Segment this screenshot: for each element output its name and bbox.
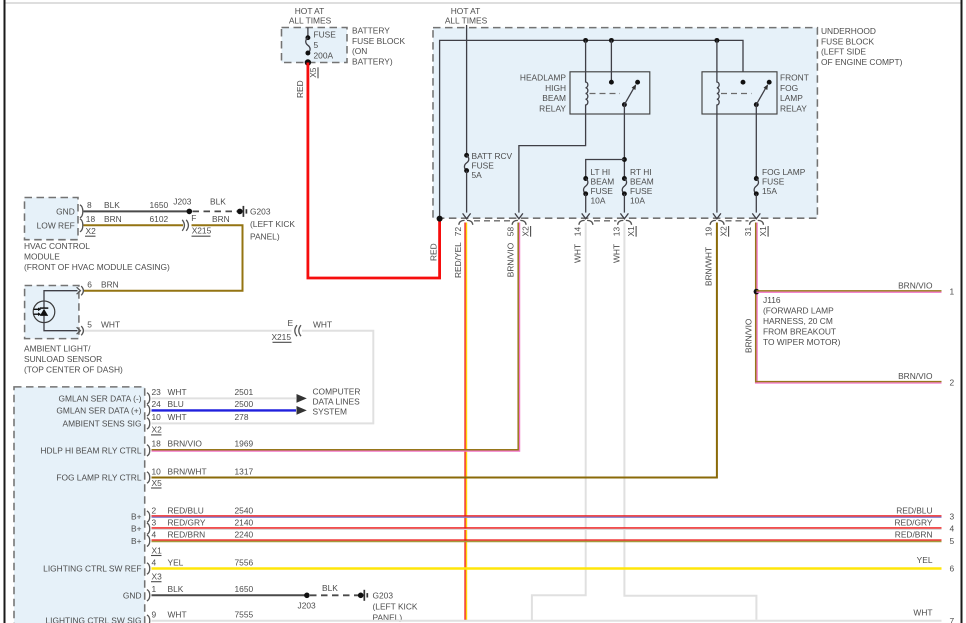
svg-text:WHT: WHT <box>101 320 120 330</box>
svg-text:6102: 6102 <box>150 214 169 224</box>
svg-text:1: 1 <box>152 584 157 594</box>
svg-text:DATA LINES: DATA LINES <box>313 397 361 407</box>
svg-text:(LEFT KICK: (LEFT KICK <box>250 219 295 229</box>
svg-text:(TOP CENTER OF DASH): (TOP CENTER OF DASH) <box>24 364 123 374</box>
svg-text:BRN/VIO: BRN/VIO <box>168 439 203 449</box>
headlamp relay coil <box>519 40 588 212</box>
svg-text:BLU: BLU <box>168 399 184 409</box>
svg-text:LIGHTING CTRL SW REF: LIGHTING CTRL SW REF <box>43 564 141 574</box>
svg-text:(FRONT OF HVAC MODULE CASING): (FRONT OF HVAC MODULE CASING) <box>24 262 170 272</box>
wire BRN from X215 to sensor pin 6 <box>84 225 243 290</box>
headlamp relay fixed contact <box>610 40 612 82</box>
svg-text:YEL: YEL <box>168 557 184 567</box>
wire fog relay output <box>755 105 757 179</box>
svg-text:LOW REF: LOW REF <box>37 220 75 230</box>
wire WHT circuit 2501 <box>152 397 297 399</box>
svg-text:E: E <box>288 318 294 328</box>
svg-text:1: 1 <box>950 287 955 297</box>
pin arc LOW REF <box>80 219 83 232</box>
connector pin 14 arcs <box>579 220 593 224</box>
svg-text:BRN/VIO: BRN/VIO <box>744 318 754 353</box>
body control module box <box>14 387 145 623</box>
svg-text:HIGH: HIGH <box>545 83 566 93</box>
svg-text:10: 10 <box>152 412 162 422</box>
svg-text:BLK: BLK <box>322 583 338 593</box>
svg-text:FRONT: FRONT <box>780 73 809 83</box>
wire headlamp relay output <box>623 105 625 179</box>
svg-text:7556: 7556 <box>235 557 254 567</box>
svg-text:BRN/VIO: BRN/VIO <box>506 242 516 277</box>
svg-text:X215: X215 <box>192 226 212 236</box>
svg-text:9: 9 <box>152 610 157 620</box>
svg-text:B+: B+ <box>131 536 142 546</box>
svg-text:LIGHTING CTRL SW SIG: LIGHTING CTRL SW SIG <box>45 616 141 623</box>
svg-text:13: 13 <box>611 227 621 237</box>
splice J116 <box>754 289 760 295</box>
wire internal bus <box>440 40 743 219</box>
svg-text:BRN: BRN <box>101 280 119 290</box>
svg-text:B+: B+ <box>131 524 142 534</box>
svg-text:278: 278 <box>235 412 249 422</box>
junction red feed at block border <box>437 216 443 222</box>
svg-text:MODULE: MODULE <box>24 251 60 261</box>
svg-text:RED/YEL: RED/YEL <box>453 242 463 278</box>
svg-text:J203: J203 <box>298 600 317 610</box>
wire BRN/VIO circuit 1969 (pin 58 to module) <box>152 223 519 450</box>
svg-text:B+: B+ <box>131 512 142 522</box>
connector pin 72 arcs <box>459 220 473 224</box>
svg-text:G203: G203 <box>250 206 271 216</box>
svg-text:RED/BLU: RED/BLU <box>896 505 932 515</box>
sensor photodiode symbol <box>33 301 55 323</box>
pin arc GND <box>80 205 83 218</box>
svg-text:4: 4 <box>152 557 157 567</box>
svg-text:6: 6 <box>87 280 92 290</box>
wire BLK dashed to G203 (lower) <box>310 594 361 596</box>
svg-text:WHT: WHT <box>168 387 187 397</box>
connector pin 31 arcs <box>750 220 764 224</box>
svg-text:UNDERHOOD: UNDERHOOD <box>821 26 876 36</box>
svg-text:RELAY: RELAY <box>539 103 566 113</box>
svg-text:J116: J116 <box>763 295 781 305</box>
svg-text:FUSE: FUSE <box>314 30 337 40</box>
wire hot feed into block <box>466 25 468 155</box>
svg-text:GMLAN SER DATA (+): GMLAN SER DATA (+) <box>56 405 141 415</box>
battery fuse block (on battery) <box>282 28 348 63</box>
svg-text:(LEFT KICK: (LEFT KICK <box>373 601 418 611</box>
arrow to computer data lines 2 <box>297 406 307 415</box>
svg-text:5: 5 <box>87 320 92 330</box>
svg-text:F: F <box>191 213 196 223</box>
svg-text:3: 3 <box>152 518 157 528</box>
headlamp relay n.o. contact <box>635 80 640 85</box>
svg-text:YEL: YEL <box>917 555 933 565</box>
connector pin 58 arcs <box>512 220 526 224</box>
svg-text:ALL TIMES: ALL TIMES <box>445 15 488 25</box>
wire WHT pin 13 <box>624 223 756 620</box>
svg-text:AMBIENT SENS SIG: AMBIENT SENS SIG <box>63 418 142 428</box>
wire BLK circuit 1650 (HVAC GND) <box>84 210 190 212</box>
svg-text:GMLAN SER DATA (-): GMLAN SER DATA (-) <box>59 393 142 403</box>
svg-text:(LEFT SIDE: (LEFT SIDE <box>821 47 866 57</box>
wire RED/BRN circuit 2240 <box>152 539 942 541</box>
svg-text:RED/BRN: RED/BRN <box>895 530 933 540</box>
wire RED from battery fuse <box>308 63 440 279</box>
svg-text:1650: 1650 <box>235 584 254 594</box>
svg-text:1969: 1969 <box>235 439 254 449</box>
svg-text:FUSE: FUSE <box>472 160 495 170</box>
HVAC control module box <box>25 198 79 240</box>
wire WHT circuit 7555 <box>152 620 942 622</box>
svg-text:24: 24 <box>152 399 162 409</box>
svg-text:BLK: BLK <box>210 196 226 206</box>
svg-text:X2: X2 <box>86 226 97 236</box>
wire BLK dashed to G203 <box>193 210 240 212</box>
svg-text:BRN: BRN <box>104 214 122 224</box>
svg-text:HVAC CONTROL: HVAC CONTROL <box>24 241 90 251</box>
svg-text:GND: GND <box>56 206 75 216</box>
svg-text:G203: G203 <box>373 590 394 600</box>
connector pin 13 arcs <box>618 220 632 224</box>
wire BLU circuit 2500 <box>152 409 297 411</box>
svg-text:2: 2 <box>950 377 955 387</box>
svg-text:RELAY: RELAY <box>780 103 807 113</box>
svg-text:BRN: BRN <box>212 214 230 224</box>
svg-text:3: 3 <box>950 512 955 522</box>
svg-text:WHT: WHT <box>573 244 583 263</box>
wire RED/BLU circuit 2540 <box>152 515 942 517</box>
svg-text:HDLP HI BEAM RLY CTRL: HDLP HI BEAM RLY CTRL <box>41 445 142 455</box>
wire WHT sensor pin 5 to X215 <box>84 330 292 332</box>
wire BRN/VIO output 2 <box>755 381 942 383</box>
svg-text:RED: RED <box>429 243 439 261</box>
svg-text:31: 31 <box>743 227 753 237</box>
svg-text:6: 6 <box>950 564 955 574</box>
fuse RT HI BEAM FUSE 10A <box>622 176 627 181</box>
svg-text:RED/BLU: RED/BLU <box>168 505 204 515</box>
block exit arrows <box>463 213 761 218</box>
junction at battery fuse block exit <box>305 59 311 65</box>
headlamp relay link (dashed) <box>590 93 621 95</box>
svg-text:FOG LAMP RLY CTRL: FOG LAMP RLY CTRL <box>56 473 142 483</box>
svg-text:8: 8 <box>87 200 92 210</box>
svg-text:5A: 5A <box>472 170 483 180</box>
svg-text:FUSE BLOCK: FUSE BLOCK <box>821 36 874 46</box>
wire BRN/VIO output 1 <box>756 290 941 292</box>
wire BRN/VIO pin 31 <box>755 223 757 384</box>
splice J203 (lower) <box>304 593 310 599</box>
svg-text:J203: J203 <box>173 196 192 206</box>
ground G203 (left kick panel) <box>237 209 243 215</box>
svg-text:2: 2 <box>152 505 157 515</box>
junction LT/RT fuse split <box>622 157 627 162</box>
headlamp high beam relay U-relay box <box>570 72 650 114</box>
svg-text:WHT: WHT <box>611 244 621 263</box>
module pin arcs <box>147 393 150 623</box>
fog relay fixed contact <box>741 80 746 85</box>
fuse FOG LAMP FUSE 15A <box>754 176 759 181</box>
svg-text:BLK: BLK <box>168 584 184 594</box>
svg-text:RED: RED <box>295 80 305 98</box>
svg-text:1317: 1317 <box>235 466 254 476</box>
svg-text:BRN/WHT: BRN/WHT <box>168 466 207 476</box>
connector dashed link 19-31 <box>726 220 749 222</box>
svg-text:58: 58 <box>506 227 516 237</box>
svg-text:23: 23 <box>152 387 162 397</box>
junction bus to headlamp relay contact <box>609 38 614 43</box>
svg-text:COMPUTER: COMPUTER <box>313 386 361 396</box>
svg-text:(ON: (ON <box>352 46 367 56</box>
svg-text:OF ENGINE COMPT): OF ENGINE COMPT) <box>821 57 903 67</box>
svg-text:FOG: FOG <box>780 83 798 93</box>
wire RED/GRY circuit 2140 <box>152 527 942 529</box>
svg-text:10A: 10A <box>591 196 606 206</box>
svg-text:WHT: WHT <box>168 610 187 620</box>
wire feed to battery fuse <box>307 28 309 38</box>
svg-text:FOG LAMP: FOG LAMP <box>762 167 806 177</box>
svg-text:WHT: WHT <box>313 319 332 329</box>
svg-text:RED/BRN: RED/BRN <box>168 530 206 540</box>
front fog lamp relay box <box>702 72 777 114</box>
svg-text:2501: 2501 <box>235 387 254 397</box>
svg-text:SYSTEM: SYSTEM <box>313 407 347 417</box>
svg-text:X215: X215 <box>271 332 291 342</box>
svg-text:200A: 200A <box>314 51 334 61</box>
svg-text:2500: 2500 <box>235 399 254 409</box>
svg-text:HEADLAMP: HEADLAMP <box>520 73 566 83</box>
svg-text:BATT RCV: BATT RCV <box>472 151 513 161</box>
svg-text:BEAM: BEAM <box>591 177 615 187</box>
svg-text:ALL TIMES: ALL TIMES <box>289 15 332 25</box>
junction bus to headlamp relay coil <box>583 38 588 43</box>
svg-text:19: 19 <box>704 227 714 237</box>
svg-text:LT HI: LT HI <box>591 167 611 177</box>
fog relay link (dashed) <box>721 93 752 95</box>
fuse LT HI BEAM FUSE 10A <box>583 176 588 181</box>
svg-text:FUSE BLOCK: FUSE BLOCK <box>352 36 405 46</box>
wire BRN/WHT circuit 1317 (pin 19 to module) <box>152 223 717 478</box>
svg-text:WHT: WHT <box>168 412 187 422</box>
connector X2 dashed link 72-58 <box>474 220 511 222</box>
connector pin 19 arcs <box>710 220 724 224</box>
wire RED/YEL pin 72 <box>464 223 466 621</box>
svg-text:SUNLOAD SENSOR: SUNLOAD SENSOR <box>24 354 102 364</box>
svg-text:14: 14 <box>573 227 583 237</box>
svg-text:BRN/VIO: BRN/VIO <box>898 371 933 381</box>
fuse BATT RCV FUSE 5A <box>464 153 469 158</box>
svg-text:4: 4 <box>152 530 157 540</box>
svg-text:18: 18 <box>152 439 162 449</box>
svg-text:4: 4 <box>950 524 955 534</box>
svg-text:18: 18 <box>86 214 96 224</box>
svg-text:BRN/WHT: BRN/WHT <box>704 247 714 286</box>
svg-text:BATTERY: BATTERY <box>352 26 390 36</box>
svg-text:X1: X1 <box>758 226 768 237</box>
svg-text:10: 10 <box>152 466 162 476</box>
svg-text:5: 5 <box>314 40 319 50</box>
svg-text:2240: 2240 <box>235 530 254 540</box>
svg-text:GND: GND <box>123 590 142 600</box>
svg-text:FUSE: FUSE <box>591 186 614 196</box>
inline connector X215 cavity E <box>295 325 301 336</box>
svg-text:FROM BREAKOUT: FROM BREAKOUT <box>763 327 836 337</box>
svg-text:AMBIENT LIGHT/: AMBIENT LIGHT/ <box>24 343 91 353</box>
sensor pin 6 connector <box>77 286 84 295</box>
fog relay n.o. contact <box>767 80 772 85</box>
ambient light/sunload sensor box <box>25 286 79 339</box>
svg-text:LAMP: LAMP <box>780 93 803 103</box>
fog relay coil <box>717 40 719 212</box>
svg-text:5: 5 <box>950 536 955 546</box>
wire WHT circuit 278 (X215 to module AMBIENT SENS SIG) <box>152 331 374 424</box>
junction bus to fog relay coil <box>714 38 719 43</box>
wire YEL circuit 7556 <box>152 567 942 569</box>
svg-text:7555: 7555 <box>235 610 254 620</box>
underhood fuse block <box>433 28 817 219</box>
connector X1 dashed link 14-13 <box>594 220 617 222</box>
wire BLK circuit 1650 (module GND) <box>152 594 307 596</box>
svg-text:X5: X5 <box>152 478 163 488</box>
svg-text:RED/GRY: RED/GRY <box>894 518 932 528</box>
svg-text:X2: X2 <box>521 226 531 237</box>
fog relay switch arm <box>754 102 759 107</box>
svg-text:HARNESS, 20 CM: HARNESS, 20 CM <box>763 316 833 326</box>
svg-text:BEAM: BEAM <box>630 177 654 187</box>
svg-text:FUSE: FUSE <box>630 186 653 196</box>
wire BRN circuit 6102 (LOW REF to X215) <box>84 224 184 226</box>
svg-text:10A: 10A <box>630 196 645 206</box>
svg-text:BRN/VIO: BRN/VIO <box>898 280 933 290</box>
svg-text:TO WIPER MOTOR): TO WIPER MOTOR) <box>763 337 841 347</box>
svg-text:X2: X2 <box>152 425 163 435</box>
wire WHT pin 14 <box>532 223 586 621</box>
svg-text:X3: X3 <box>152 572 163 582</box>
arrow to computer data lines <box>297 394 307 403</box>
svg-text:X2: X2 <box>719 226 729 237</box>
svg-text:15A: 15A <box>762 186 777 196</box>
svg-text:72: 72 <box>453 227 463 237</box>
svg-text:(FORWARD LAMP: (FORWARD LAMP <box>763 306 834 316</box>
fuse FUSE 5 200A <box>305 35 310 40</box>
svg-text:2140: 2140 <box>235 518 254 528</box>
svg-text:RT HI: RT HI <box>630 167 652 177</box>
svg-text:PANEL): PANEL) <box>250 231 280 241</box>
svg-text:X1: X1 <box>626 226 636 237</box>
svg-text:X1: X1 <box>152 545 163 555</box>
ground G203 (lower) <box>358 593 364 599</box>
svg-text:FUSE: FUSE <box>762 177 785 187</box>
svg-text:BEAM: BEAM <box>542 93 566 103</box>
svg-text:1650: 1650 <box>150 200 169 210</box>
sensor pin 5 connector <box>77 326 84 335</box>
svg-text:BLK: BLK <box>104 200 120 210</box>
svg-text:BATTERY): BATTERY) <box>352 56 393 66</box>
inline connector X215 cavity F <box>182 220 188 231</box>
svg-text:WHT: WHT <box>913 607 932 617</box>
splice J203 <box>187 209 193 215</box>
headlamp relay switch arm <box>622 102 627 107</box>
svg-text:2540: 2540 <box>235 505 254 515</box>
svg-text:RED/GRY: RED/GRY <box>168 518 206 528</box>
svg-text:7: 7 <box>950 616 955 623</box>
